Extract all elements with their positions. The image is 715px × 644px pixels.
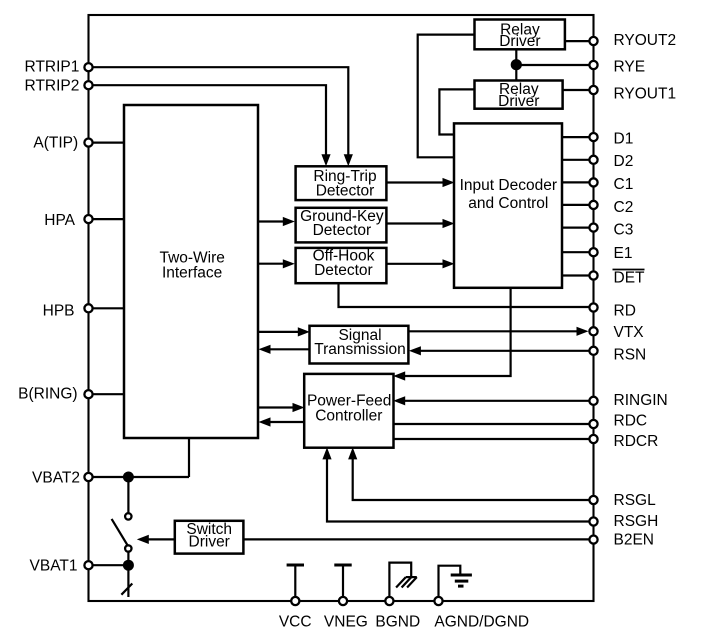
- svg-text:RDCR: RDCR: [614, 433, 659, 450]
- svg-text:E1: E1: [614, 245, 633, 262]
- svg-text:RSN: RSN: [614, 346, 647, 363]
- svg-text:D1: D1: [614, 130, 634, 147]
- svg-text:VNEG: VNEG: [324, 613, 368, 630]
- svg-text:RD: RD: [614, 303, 636, 320]
- svg-text:RSGH: RSGH: [614, 513, 659, 530]
- svg-text:RINGIN: RINGIN: [614, 392, 668, 409]
- svg-text:C3: C3: [614, 222, 634, 239]
- svg-text:BGND: BGND: [375, 613, 420, 630]
- svg-text:VCC: VCC: [279, 613, 312, 630]
- svg-text:Driver: Driver: [189, 533, 230, 550]
- svg-text:Controller: Controller: [315, 408, 382, 425]
- svg-text:Driver: Driver: [498, 93, 539, 110]
- svg-text:B(RING): B(RING): [18, 386, 77, 403]
- svg-text:HPB: HPB: [43, 302, 75, 319]
- svg-text:Detector: Detector: [314, 262, 373, 279]
- svg-text:AGND/DGND: AGND/DGND: [434, 613, 529, 630]
- svg-text:and Control: and Control: [468, 195, 548, 212]
- svg-text:RSGL: RSGL: [614, 492, 657, 509]
- svg-text:C2: C2: [614, 199, 634, 216]
- svg-text:VBAT2: VBAT2: [32, 470, 80, 487]
- svg-text:Detector: Detector: [313, 222, 372, 239]
- svg-text:A(TIP): A(TIP): [33, 135, 78, 152]
- svg-text:RDC: RDC: [614, 413, 648, 430]
- svg-text:RYE: RYE: [614, 59, 646, 76]
- svg-text:VTX: VTX: [614, 324, 645, 341]
- svg-text:B2EN: B2EN: [614, 531, 655, 548]
- svg-text:Input Decoder: Input Decoder: [460, 177, 557, 194]
- svg-text:Transmission: Transmission: [314, 341, 406, 358]
- svg-text:DET: DET: [614, 269, 646, 286]
- svg-text:HPA: HPA: [44, 212, 75, 229]
- svg-text:RYOUT2: RYOUT2: [614, 32, 677, 49]
- svg-text:C1: C1: [614, 176, 634, 193]
- svg-text:RYOUT1: RYOUT1: [614, 85, 677, 102]
- svg-text:VBAT1: VBAT1: [30, 558, 78, 575]
- svg-text:Detector: Detector: [316, 182, 375, 199]
- svg-text:Driver: Driver: [499, 33, 540, 50]
- svg-text:RTRIP2: RTRIP2: [25, 77, 80, 94]
- svg-text:D2: D2: [614, 153, 634, 170]
- svg-text:Interface: Interface: [162, 265, 222, 282]
- svg-text:RTRIP1: RTRIP1: [25, 59, 80, 76]
